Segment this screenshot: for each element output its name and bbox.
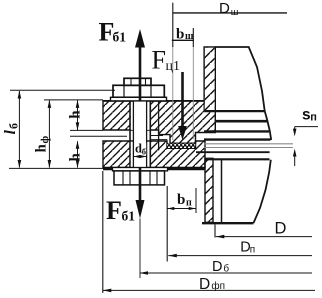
svg-text:ц1: ц1 <box>166 59 181 74</box>
svg-text:б: б <box>142 147 146 157</box>
svg-text:б: б <box>223 263 229 275</box>
svg-text:F: F <box>152 46 166 75</box>
svg-text:D: D <box>219 0 230 17</box>
svg-text:п: п <box>250 245 255 256</box>
svg-text:фп: фп <box>211 280 225 292</box>
svg-text:F: F <box>106 196 122 225</box>
svg-text:ш: ш <box>185 31 194 42</box>
svg-text:b: b <box>177 192 185 208</box>
svg-text:б: б <box>7 123 21 129</box>
svg-text:h: h <box>68 110 84 119</box>
svg-text:l: l <box>2 130 19 135</box>
svg-text:п: п <box>310 111 317 123</box>
svg-text:б1: б1 <box>113 30 127 45</box>
svg-text:ш: ш <box>231 7 239 18</box>
svg-text:D: D <box>212 259 222 275</box>
svg-text:b: b <box>176 27 184 43</box>
svg-text:h: h <box>68 153 84 162</box>
svg-text:h: h <box>34 144 50 153</box>
svg-text:б1: б1 <box>122 209 136 224</box>
svg-text:п: п <box>186 198 192 209</box>
svg-text:ф: ф <box>39 136 51 144</box>
svg-text:D: D <box>199 276 210 293</box>
svg-text:D: D <box>275 219 287 237</box>
